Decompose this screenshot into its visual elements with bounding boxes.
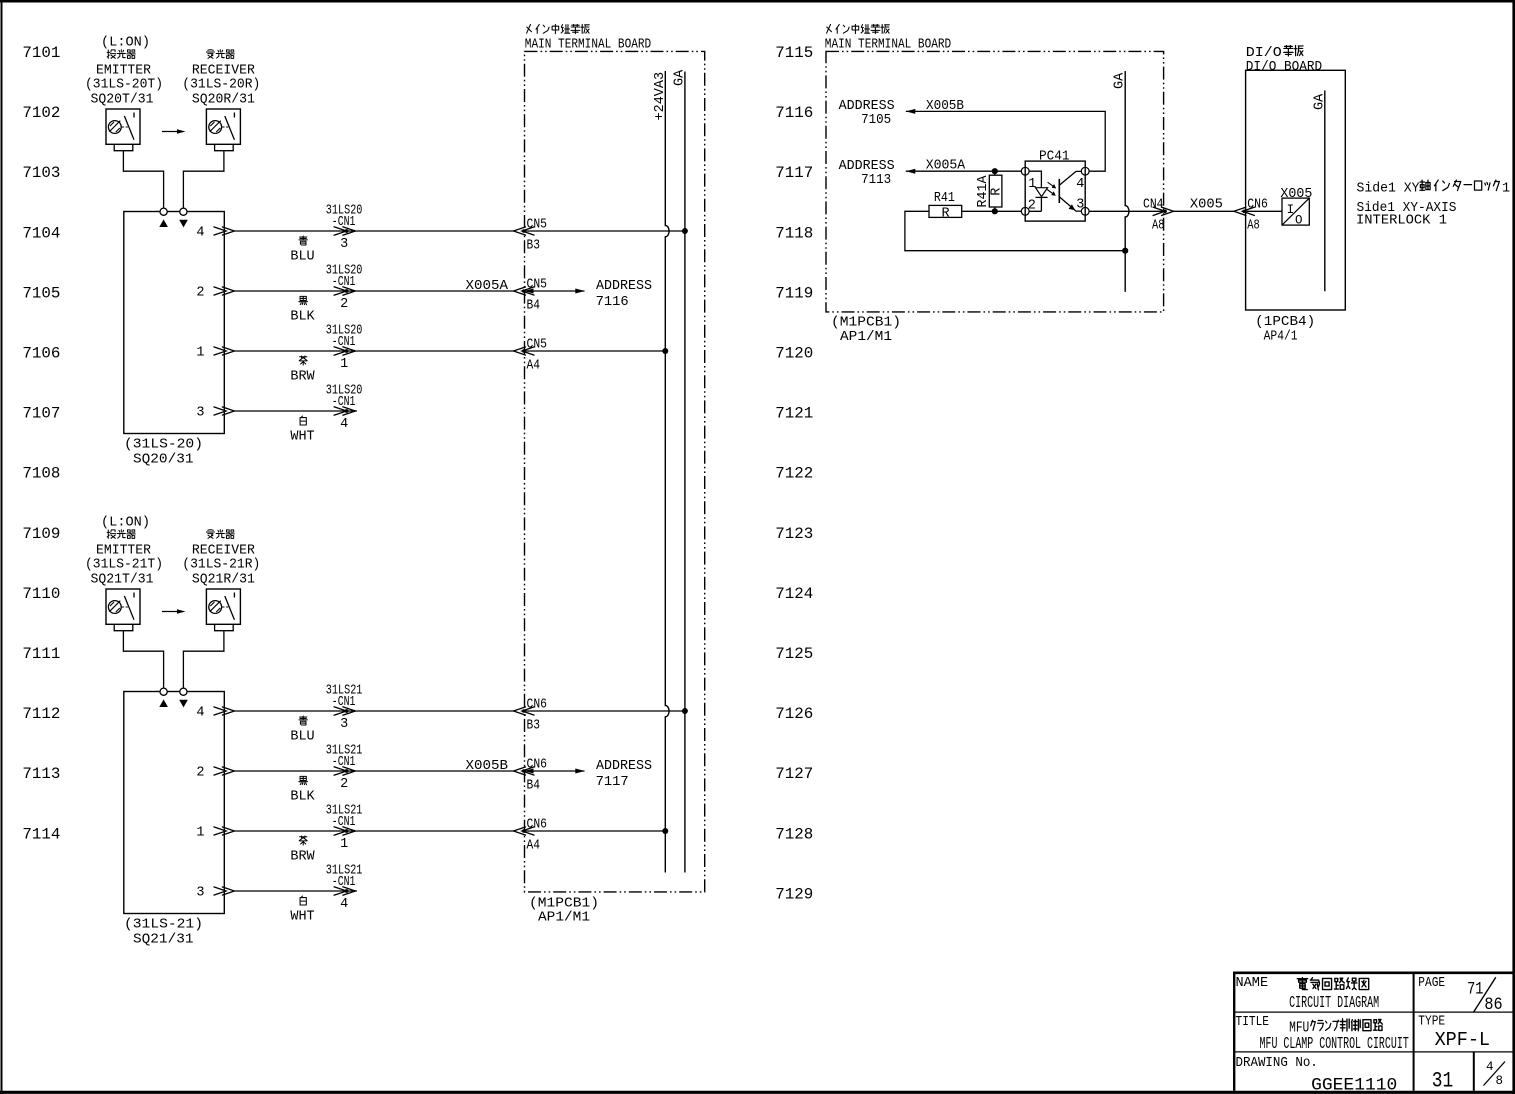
svg-text:B4: B4: [527, 298, 541, 313]
svg-text:7126: 7126: [775, 705, 813, 723]
svg-text:3: 3: [340, 717, 348, 732]
svg-text:2: 2: [196, 286, 204, 301]
svg-text:BRW: BRW: [290, 370, 315, 385]
svg-text:SQ20T/31: SQ20T/31: [91, 92, 154, 107]
svg-text:2: 2: [1028, 198, 1036, 213]
svg-text:-CN1: -CN1: [332, 395, 356, 410]
svg-text:1: 1: [1028, 177, 1036, 192]
svg-text:A4: A4: [527, 838, 541, 853]
svg-text:-CN1: -CN1: [332, 275, 356, 290]
svg-text:4: 4: [1076, 177, 1084, 192]
svg-text:7117: 7117: [596, 775, 629, 790]
svg-text:31: 31: [1432, 1068, 1454, 1093]
svg-text:7122: 7122: [775, 465, 813, 483]
svg-text:7125: 7125: [775, 645, 813, 663]
svg-text:7108: 7108: [22, 465, 60, 483]
svg-text:4: 4: [1486, 1060, 1494, 1074]
svg-text:BLU: BLU: [290, 250, 314, 265]
svg-text:7123: 7123: [775, 525, 813, 543]
svg-text:BLK: BLK: [290, 790, 315, 805]
svg-text:WHT: WHT: [290, 910, 314, 925]
svg-text:R: R: [989, 188, 1004, 196]
svg-text:X005: X005: [1190, 198, 1223, 213]
svg-text:I: I: [1287, 203, 1295, 217]
svg-text:7124: 7124: [775, 585, 813, 603]
svg-text:7117: 7117: [775, 164, 813, 182]
svg-text:7121: 7121: [775, 405, 813, 423]
svg-text:-CN1: -CN1: [332, 815, 356, 830]
svg-text:7118: 7118: [775, 224, 813, 242]
svg-text:7105: 7105: [861, 113, 891, 128]
svg-text:X005B: X005B: [466, 759, 509, 774]
svg-text:NAME: NAME: [1236, 976, 1269, 991]
svg-text:-CN1: -CN1: [332, 215, 356, 230]
svg-text:7129: 7129: [775, 885, 813, 903]
svg-text:2: 2: [196, 766, 204, 781]
svg-text:3: 3: [340, 237, 348, 252]
svg-text:7128: 7128: [775, 825, 813, 843]
svg-text:ADDRESS: ADDRESS: [839, 159, 895, 174]
svg-text:(L:ON): (L:ON): [101, 36, 150, 51]
svg-text:WHT: WHT: [290, 430, 314, 445]
svg-text:CN6: CN6: [1247, 198, 1268, 213]
svg-text:B4: B4: [527, 778, 541, 793]
svg-text:B3: B3: [527, 718, 541, 733]
svg-text:BLK: BLK: [290, 310, 315, 325]
svg-text:2: 2: [340, 297, 348, 312]
svg-text:1: 1: [196, 346, 204, 361]
svg-text:A8: A8: [1247, 219, 1260, 234]
svg-text:RECEIVER: RECEIVER: [192, 64, 255, 79]
svg-text:86: 86: [1484, 995, 1502, 1015]
svg-text:(31LS-20R): (31LS-20R): [182, 78, 260, 93]
svg-text:CIRCUIT DIAGRAM: CIRCUIT DIAGRAM: [1289, 993, 1379, 1012]
svg-text:MFU CLAMP CONTROL CIRCUIT: MFU CLAMP CONTROL CIRCUIT: [1260, 1034, 1409, 1053]
svg-text:7110: 7110: [22, 585, 60, 603]
svg-text:1: 1: [196, 826, 204, 841]
svg-text:ADDRESS: ADDRESS: [596, 279, 652, 294]
svg-text:7111: 7111: [22, 645, 60, 663]
svg-text:4: 4: [196, 226, 204, 241]
svg-text:7103: 7103: [22, 164, 60, 182]
svg-text:R: R: [942, 206, 950, 221]
svg-text:AP4/1: AP4/1: [1264, 329, 1298, 344]
svg-text:(M1PCB1): (M1PCB1): [529, 897, 599, 912]
svg-text:AP1/M1: AP1/M1: [840, 330, 892, 345]
svg-text:8: 8: [1496, 1074, 1504, 1088]
svg-text:BRW: BRW: [290, 850, 315, 865]
svg-text:CN6: CN6: [527, 817, 548, 832]
svg-text:B3: B3: [527, 238, 541, 253]
svg-text:7127: 7127: [775, 765, 813, 783]
svg-text:-CN1: -CN1: [332, 335, 356, 350]
svg-text:2: 2: [340, 777, 348, 792]
svg-text:4: 4: [340, 417, 348, 432]
svg-text:7112: 7112: [22, 705, 60, 723]
svg-text:3: 3: [196, 406, 204, 421]
svg-text:EMITTER: EMITTER: [96, 544, 151, 559]
svg-text:7116: 7116: [596, 295, 629, 310]
svg-text:GA: GA: [1113, 72, 1128, 89]
svg-text:(31LS-20): (31LS-20): [124, 438, 203, 453]
svg-text:SQ21/31: SQ21/31: [133, 933, 194, 948]
svg-text:TITLE: TITLE: [1236, 1015, 1270, 1030]
svg-text:SQ20R/31: SQ20R/31: [192, 92, 255, 107]
svg-text:7101: 7101: [22, 44, 60, 62]
svg-text:1: 1: [340, 837, 348, 852]
svg-text:TYPE: TYPE: [1418, 1015, 1445, 1030]
svg-text:R41: R41: [934, 191, 955, 206]
svg-text:GA: GA: [1312, 93, 1327, 110]
svg-text:7113: 7113: [22, 765, 60, 783]
svg-text:SQ21T/31: SQ21T/31: [91, 572, 154, 587]
svg-text:DRAWING No.: DRAWING No.: [1236, 1056, 1318, 1071]
svg-text:7109: 7109: [22, 525, 60, 543]
svg-text:(1PCB4): (1PCB4): [1255, 315, 1315, 330]
svg-text:7104: 7104: [22, 224, 60, 242]
svg-text:7120: 7120: [775, 345, 813, 363]
svg-text:3: 3: [196, 886, 204, 901]
svg-text:7106: 7106: [22, 345, 60, 363]
svg-text:1: 1: [340, 357, 348, 372]
svg-text:X005A: X005A: [926, 159, 966, 174]
svg-text:CN4: CN4: [1143, 198, 1164, 213]
svg-text:(31LS-21R): (31LS-21R): [182, 558, 260, 573]
svg-text:A8: A8: [1152, 219, 1165, 234]
svg-text:O: O: [1295, 213, 1303, 227]
svg-text:7113: 7113: [861, 173, 891, 188]
svg-text:(L:ON): (L:ON): [101, 516, 150, 531]
svg-text:7105: 7105: [22, 284, 60, 302]
svg-text:-CN1: -CN1: [332, 755, 356, 770]
svg-text:A4: A4: [527, 358, 541, 373]
svg-text:3: 3: [1076, 198, 1084, 213]
svg-text:XPF-L: XPF-L: [1435, 1029, 1490, 1051]
svg-text:DI/O BOARD: DI/O BOARD: [1246, 60, 1322, 75]
svg-text:MAIN TERMINAL BOARD: MAIN TERMINAL BOARD: [525, 37, 651, 52]
svg-text:7119: 7119: [775, 284, 813, 302]
svg-text:CN5: CN5: [527, 217, 548, 232]
svg-text:7102: 7102: [22, 104, 60, 122]
svg-text:X005B: X005B: [926, 99, 964, 114]
svg-text:ADDRESS: ADDRESS: [596, 759, 652, 774]
svg-text:1: 1: [1502, 181, 1510, 196]
svg-text:CN5: CN5: [527, 337, 548, 352]
svg-text:CN6: CN6: [527, 697, 548, 712]
svg-text:4: 4: [340, 897, 348, 912]
svg-text:-CN1: -CN1: [332, 875, 356, 890]
svg-text:(M1PCB1): (M1PCB1): [831, 315, 901, 330]
svg-text:SQ21R/31: SQ21R/31: [192, 572, 255, 587]
svg-text:Side1 XY: Side1 XY: [1357, 181, 1420, 196]
svg-text:7116: 7116: [775, 104, 813, 122]
svg-text:GA: GA: [672, 69, 687, 86]
svg-text:AP1/M1: AP1/M1: [538, 911, 590, 926]
svg-text:4: 4: [196, 706, 204, 721]
svg-text:(31LS-21T): (31LS-21T): [85, 558, 163, 573]
svg-text:-CN1: -CN1: [332, 695, 356, 710]
svg-text:EMITTER: EMITTER: [96, 64, 151, 79]
svg-text:X005A: X005A: [466, 279, 509, 294]
svg-text:PC41: PC41: [1039, 150, 1070, 165]
svg-text:(31LS-20T): (31LS-20T): [85, 78, 163, 93]
svg-text:BLU: BLU: [290, 730, 314, 745]
svg-text:7115: 7115: [775, 44, 813, 62]
svg-text:7107: 7107: [22, 405, 60, 423]
svg-text:X005: X005: [1280, 187, 1312, 202]
svg-text:PAGE: PAGE: [1418, 976, 1445, 991]
svg-text:(31LS-21): (31LS-21): [124, 918, 203, 933]
svg-text:RECEIVER: RECEIVER: [192, 544, 255, 559]
svg-text:+24VA3: +24VA3: [653, 72, 668, 121]
svg-text:ADDRESS: ADDRESS: [839, 99, 895, 114]
svg-text:MAIN TERMINAL BOARD: MAIN TERMINAL BOARD: [825, 37, 951, 52]
svg-text:SQ20/31: SQ20/31: [133, 453, 194, 468]
svg-text:7114: 7114: [22, 825, 60, 843]
svg-text:DI/O: DI/O: [1246, 46, 1282, 61]
svg-text:71: 71: [1467, 980, 1483, 1000]
svg-text:INTERLOCK 1: INTERLOCK 1: [1356, 214, 1447, 229]
